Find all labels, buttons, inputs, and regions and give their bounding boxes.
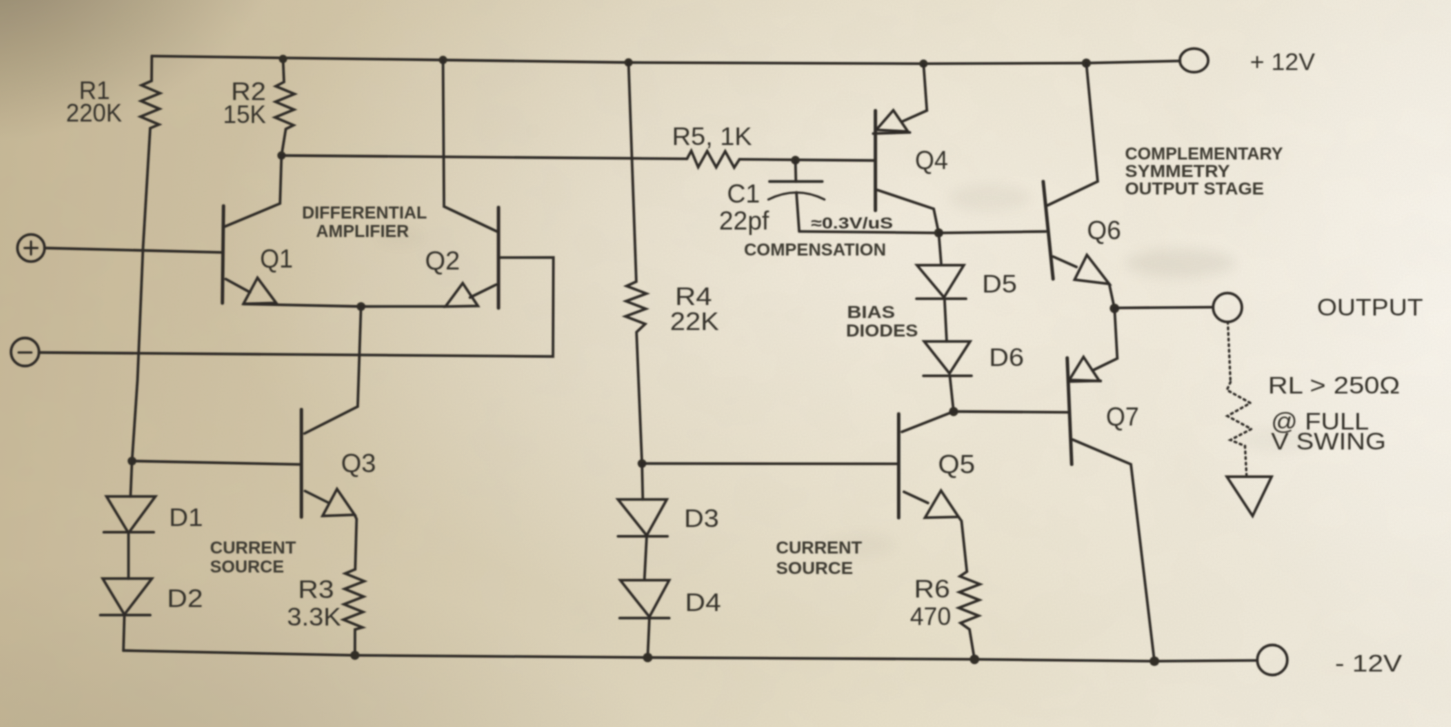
svg-text:22K: 22K <box>670 308 719 336</box>
label R4 22K <box>670 283 719 336</box>
svg-text:DIFFERENTIAL: DIFFERENTIAL <box>302 203 427 223</box>
wire compensation to Q4 collector <box>799 231 939 233</box>
svg-text:D6: D6 <box>989 344 1024 372</box>
wire Q5 base <box>642 462 899 465</box>
diode D6 <box>923 341 971 411</box>
svg-text:+ 12V: + 12V <box>1250 49 1315 76</box>
svg-text:≈0.3V/uS: ≈0.3V/uS <box>811 216 893 233</box>
svg-text:COMPENSATION: COMPENSATION <box>744 240 886 260</box>
wire output node to terminal <box>1115 306 1214 309</box>
wire + input to Q1 base <box>45 248 223 252</box>
node rail-R2 junction <box>279 55 287 63</box>
svg-text:Q3: Q3 <box>341 448 376 478</box>
node D3/Q5-base junction <box>638 459 647 468</box>
svg-text:Q1: Q1 <box>260 244 293 274</box>
wire Q1 emitter to common node <box>244 304 362 307</box>
wire left vertical (R1 to D1 node) <box>132 128 150 461</box>
label RL value <box>1268 373 1400 456</box>
svg-text:AMPLIFIER: AMPLIFIER <box>316 221 410 241</box>
node rail-R6 junction <box>970 655 980 665</box>
label BIAS DIODES <box>846 302 918 341</box>
diode D3 <box>618 464 668 537</box>
node Q1 collector junction <box>277 151 285 159</box>
label COMPLEMENTARY SYMMETRY OUTPUT STAGE <box>1125 144 1284 199</box>
terminal +12V <box>1180 49 1208 73</box>
label C1 22pf <box>719 179 770 236</box>
node rail-R4 junction <box>624 58 632 66</box>
transistor Q5 <box>899 412 967 572</box>
terminal OUTPUT <box>1213 293 1242 322</box>
svg-text:C1: C1 <box>727 179 760 209</box>
svg-text:DIODES: DIODES <box>846 321 918 341</box>
svg-text:D1: D1 <box>169 504 203 532</box>
diode D2 <box>100 533 152 651</box>
svg-text:R3: R3 <box>298 576 334 604</box>
svg-text:D4: D4 <box>685 589 721 617</box>
label CURRENT SOURCE right <box>776 538 863 579</box>
wire Q7 base <box>954 410 1068 413</box>
svg-text:D5: D5 <box>982 271 1017 299</box>
node output junction <box>1110 304 1120 314</box>
node C1 junction <box>791 156 800 165</box>
diode D1 <box>104 461 156 533</box>
wire Q3 base <box>132 461 301 464</box>
svg-text:Q5: Q5 <box>938 449 975 479</box>
svg-text:Q6: Q6 <box>1087 215 1121 245</box>
svg-text:Q2: Q2 <box>425 246 460 276</box>
resistor R3 <box>343 569 364 655</box>
transistor Q3 <box>301 410 356 570</box>
svg-text:CURRENT: CURRENT <box>776 538 863 558</box>
svg-text:OUTPUT: OUTPUT <box>1317 295 1423 322</box>
terminal -12V <box>1257 645 1287 675</box>
capacitor C1 <box>768 160 824 231</box>
svg-text:SOURCE: SOURCE <box>210 557 284 577</box>
label R6 470 <box>910 576 951 632</box>
transistor Q7 <box>1067 308 1154 661</box>
wire -12V bottom rail <box>123 651 1257 662</box>
node rail-Q4 junction <box>919 60 927 68</box>
terminal + input <box>17 234 44 261</box>
wire - input to Q2 base <box>39 257 553 356</box>
transistor Q6 <box>1043 63 1114 308</box>
wire emitter common to Q3 collector <box>305 307 362 434</box>
wire Q1 collector to R5 <box>282 156 688 159</box>
node rail-D4 junction <box>643 653 653 663</box>
resistor R2 <box>275 59 295 156</box>
node D1/Q3-base junction <box>128 457 137 466</box>
diode D5 <box>917 265 967 341</box>
resistor R6 <box>959 572 980 660</box>
wire +12V top rail <box>152 56 1180 64</box>
paper smudges <box>378 129 1317 556</box>
resistor R4 <box>625 63 646 464</box>
svg-text:V SWING: V SWING <box>1271 429 1386 456</box>
svg-text:SOURCE: SOURCE <box>776 558 853 578</box>
svg-text:15K: 15K <box>223 101 266 129</box>
svg-text:220K: 220K <box>66 100 122 128</box>
resistor R1 <box>141 56 161 128</box>
label DIFFERENTIAL AMPLIFIER <box>302 203 427 242</box>
node rail-Q6 junction <box>1082 59 1091 68</box>
node rail-Q2 junction <box>439 56 447 64</box>
wire Q4 collector to D5 <box>939 233 942 265</box>
node rail-Q7 junction <box>1150 656 1160 666</box>
transistor Q4 <box>873 64 939 233</box>
svg-text:Q4: Q4 <box>915 145 948 175</box>
transistor Q1 <box>222 156 281 304</box>
label R1 220K <box>66 77 122 128</box>
ground symbol <box>1227 477 1272 516</box>
svg-text:R5, 1K: R5, 1K <box>672 123 752 151</box>
svg-text:OUTPUT STAGE: OUTPUT STAGE <box>1125 179 1264 199</box>
node Q4 collector junction <box>934 228 943 237</box>
svg-text:Q7: Q7 <box>1106 402 1139 432</box>
terminal - input <box>11 338 39 366</box>
diode D4 <box>620 536 670 656</box>
label R2 15K <box>223 78 266 129</box>
svg-text:D2: D2 <box>167 585 203 613</box>
label CURRENT SOURCE left <box>210 538 297 577</box>
svg-text:470: 470 <box>910 603 951 631</box>
node emitter common junction <box>357 302 366 311</box>
label R3 3.3K <box>287 576 341 632</box>
svg-text:BIAS: BIAS <box>847 302 895 322</box>
svg-text:RL > 250Ω: RL > 250Ω <box>1268 373 1400 400</box>
load resistor RL (dotted) <box>1227 322 1252 475</box>
svg-text:22pf: 22pf <box>719 206 770 236</box>
transistor Q2 <box>361 60 499 308</box>
wire Q6 base <box>939 232 1046 233</box>
resistor R5 <box>687 151 740 168</box>
node rail-R3 junction <box>350 651 359 660</box>
svg-text:3.3K: 3.3K <box>287 604 341 632</box>
wire R5 to Q4 base <box>740 159 876 160</box>
node Q5 collector junction <box>949 407 958 416</box>
svg-text:R4: R4 <box>675 283 712 311</box>
svg-text:D3: D3 <box>684 505 719 533</box>
svg-text:R6: R6 <box>914 576 950 604</box>
svg-text:- 12V: - 12V <box>1335 651 1402 678</box>
svg-text:CURRENT: CURRENT <box>210 538 297 558</box>
